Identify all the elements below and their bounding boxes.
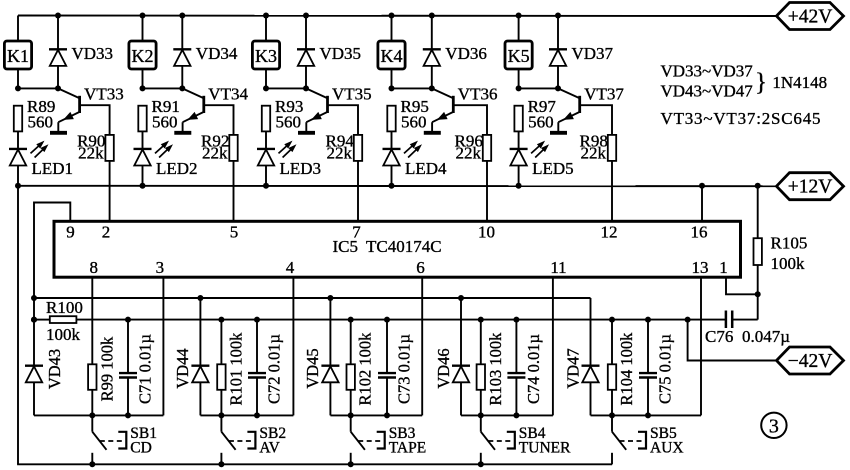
svg-text:100k: 100k [771, 254, 806, 273]
resistor R96 22k [455, 131, 492, 162]
svg-text:K2: K2 [132, 46, 154, 66]
switch SB2 AV [218, 415, 286, 467]
svg-text:1: 1 [719, 258, 728, 277]
wire -42V line [31, 317, 726, 323]
power +12V [777, 173, 844, 200]
pin 16 label [691, 223, 708, 242]
svg-text:VD34: VD34 [196, 44, 238, 63]
transistor VT37 [558, 84, 624, 135]
svg-text:12: 12 [601, 223, 618, 242]
wire branch to -42V [688, 320, 777, 361]
svg-text:LED5: LED5 [532, 159, 574, 178]
transistor VT34 [182, 84, 248, 135]
LED LED2 [134, 131, 198, 188]
transistor VT35 [306, 84, 372, 135]
note VD43~VD47 [661, 82, 754, 101]
wire R94 to IC pin [357, 161, 359, 221]
svg-text:C71 0.01µ: C71 0.01µ [136, 334, 155, 404]
switch SB1 CD [89, 415, 157, 467]
resistor R93 560 [262, 97, 304, 132]
svg-text:8: 8 [90, 258, 99, 277]
pin 9 label [66, 223, 75, 242]
wire R92 to IC pin [233, 161, 235, 221]
svg-text:C73 0.01µ: C73 0.01µ [395, 334, 414, 404]
svg-text:3: 3 [156, 258, 165, 277]
svg-text:VT37: VT37 [584, 84, 624, 103]
svg-text:LED3: LED3 [280, 159, 322, 178]
svg-text:1N4148: 1N4148 [772, 73, 827, 92]
svg-text:22k: 22k [202, 144, 228, 163]
wire IC pin 4 down [292, 277, 294, 415]
svg-text:R103 100k: R103 100k [486, 332, 505, 406]
resistor R100 100k [34, 298, 83, 344]
svg-text:K5: K5 [508, 46, 530, 66]
svg-text:VD47: VD47 [563, 348, 582, 388]
svg-text:560: 560 [152, 113, 178, 132]
pin 3 label [156, 258, 165, 277]
pin 2 label [102, 223, 111, 242]
svg-text:VD33~VD37: VD33~VD37 [661, 62, 754, 81]
pin 1 label [719, 258, 728, 277]
pin 10 label [478, 223, 495, 242]
svg-text:VD33: VD33 [72, 44, 114, 63]
switch SB4 TUNER [478, 415, 571, 467]
resistor R91 560 [138, 97, 180, 132]
wire R98 to IC pin [611, 161, 613, 221]
node K3/VD35/VT35 collector [263, 85, 309, 91]
LED LED4 [383, 131, 448, 188]
resistor R89 560 [14, 97, 56, 132]
svg-text:3: 3 [769, 415, 779, 437]
node K4/VD36/VT36 collector [389, 85, 435, 91]
transistor VT33 [58, 84, 124, 135]
svg-text:13: 13 [692, 258, 709, 277]
svg-text:22k: 22k [456, 144, 482, 163]
capacitor C76 0.047µ [705, 294, 790, 346]
resistor R99 100k [88, 277, 116, 415]
pin 12 label [601, 223, 618, 242]
wire +12V rail [18, 185, 777, 187]
svg-text:22k: 22k [581, 144, 607, 163]
switch SB3 TAPE [348, 415, 427, 467]
svg-text:10: 10 [478, 223, 495, 242]
pin 13 label [692, 258, 709, 277]
LED LED1 [9, 131, 73, 188]
relay K4 [378, 13, 405, 89]
wire pin 1 to R105 node [726, 277, 761, 297]
svg-text:TC40174C: TC40174C [366, 237, 442, 256]
transistor VT36 [432, 84, 498, 135]
IC5 label [333, 237, 442, 256]
resistor R97 560 [514, 97, 556, 132]
wire IC pin 11 down [552, 277, 554, 415]
figure number 3 [761, 413, 786, 438]
wire +42V top rail [18, 15, 777, 18]
relay K2 [129, 13, 156, 89]
svg-text:AV: AV [259, 439, 280, 456]
note brace [755, 69, 767, 96]
pin 4 label [286, 258, 295, 277]
diode VD46 [434, 298, 470, 415]
diode VD47 [563, 298, 599, 415]
svg-text:TAPE: TAPE [389, 439, 427, 456]
node K2/VD34/VT34 collector [140, 85, 186, 91]
svg-text:22k: 22k [78, 144, 104, 163]
diode VD35 [297, 13, 361, 89]
svg-text:CD: CD [130, 439, 152, 456]
capacitor C75 0.01µ [639, 320, 675, 416]
diode VD45 [303, 298, 339, 415]
pin 8 label [90, 258, 99, 277]
wire pin 9 hook to VD43 node [34, 203, 70, 299]
note VD33~VD37 [661, 62, 754, 81]
svg-text:VD43~VD47: VD43~VD47 [661, 82, 754, 101]
wire IC pin 13 down [700, 277, 702, 415]
pin 5 label [230, 223, 239, 242]
svg-text:7: 7 [352, 223, 361, 242]
resistor R92 22k [201, 131, 238, 162]
svg-text:VD43: VD43 [45, 349, 64, 389]
svg-text:K4: K4 [381, 46, 403, 66]
svg-text:16: 16 [691, 223, 708, 242]
node K1/VD33/VT33 collector [15, 85, 61, 91]
relay K5 [505, 13, 532, 89]
diode VD34 [173, 13, 238, 89]
wire bus 2 [200, 412, 293, 418]
note 1N4148 [772, 73, 827, 92]
capacitor C72 0.01µ [248, 320, 284, 416]
resistor R95 560 [387, 97, 429, 132]
svg-text:−42V: −42V [788, 351, 833, 372]
svg-text:C75 0.01µ: C75 0.01µ [656, 334, 675, 404]
LED LED5 [510, 131, 574, 188]
svg-text:TUNER: TUNER [519, 439, 571, 456]
ground (emitter VT36) [424, 131, 441, 135]
svg-text:R100: R100 [46, 298, 83, 317]
svg-text:R105: R105 [771, 234, 808, 253]
pin 7 label [352, 223, 361, 242]
svg-text:VT33: VT33 [84, 84, 124, 103]
svg-text:4: 4 [286, 258, 295, 277]
diode VD33 [49, 13, 113, 89]
note VT33~VT37:2SC645 [661, 109, 822, 128]
svg-text:VT33~VT37:2SC645: VT33~VT37:2SC645 [661, 109, 822, 128]
pin 6 label [416, 258, 425, 277]
svg-text:9: 9 [66, 223, 75, 242]
power -42V [777, 347, 844, 374]
svg-text:+42V: +42V [788, 7, 833, 28]
capacitor C71 0.01µ [119, 320, 155, 416]
svg-text:560: 560 [276, 113, 302, 132]
resistor R94 22k [326, 131, 363, 162]
svg-text:2: 2 [102, 223, 111, 242]
svg-text:VD37: VD37 [572, 44, 614, 63]
wire R90 to IC pin [109, 161, 111, 221]
resistor R101 100k [217, 320, 245, 416]
svg-text:VT35: VT35 [332, 84, 372, 103]
capacitor C74 0.01µ [507, 320, 543, 416]
wire pin-9 node to VD44..VD47 tops [31, 295, 591, 301]
resistor R104 100k [608, 320, 636, 416]
IC IC5 TC40174C [54, 221, 741, 277]
resistor R98 22k [580, 131, 617, 162]
ground (emitter VT37) [550, 131, 567, 135]
svg-text:LED4: LED4 [405, 159, 447, 178]
svg-text:K1: K1 [7, 46, 29, 66]
wire pin 16 to +12V rail [699, 183, 705, 222]
LED LED3 [257, 131, 321, 188]
node K5/VD37/VT37 collector [516, 85, 561, 91]
relay K1 [4, 16, 31, 89]
wire IC pin 3 down [162, 277, 164, 415]
svg-text:K3: K3 [255, 46, 277, 66]
ground (emitter VT34) [174, 131, 191, 135]
svg-text:VD45: VD45 [303, 348, 322, 388]
ground (emitter VT35) [298, 131, 315, 135]
svg-text:0.047µ: 0.047µ [742, 327, 790, 346]
svg-text:VD44: VD44 [173, 348, 192, 388]
wire bus 5 [591, 412, 702, 418]
diode VD43 [25, 298, 64, 415]
svg-text:VT34: VT34 [208, 84, 248, 103]
svg-text:+12V: +12V [788, 177, 833, 198]
svg-text:560: 560 [401, 113, 427, 132]
svg-text:VD35: VD35 [320, 44, 362, 63]
svg-text:}: } [755, 69, 767, 96]
svg-text:5: 5 [230, 223, 239, 242]
svg-text:VD46: VD46 [434, 348, 453, 388]
svg-text:R104 100k: R104 100k [617, 332, 636, 406]
svg-text:560: 560 [528, 113, 554, 132]
power +42V [777, 3, 844, 30]
switch SB5 AUX [612, 415, 684, 464]
svg-text:C76: C76 [705, 327, 733, 346]
svg-text:R99 100k: R99 100k [97, 336, 116, 401]
svg-text:6: 6 [416, 258, 425, 277]
svg-text:100k: 100k [46, 325, 81, 344]
pin 11 label [550, 258, 566, 277]
wire IC pin 6 down [421, 277, 423, 415]
resistor R103 100k [477, 320, 505, 416]
svg-text:LED2: LED2 [156, 159, 198, 178]
diode VD36 [423, 13, 487, 89]
wire R96 to IC pin [486, 161, 488, 221]
ground (emitter VT33) [50, 131, 67, 135]
svg-text:C72 0.01µ: C72 0.01µ [265, 334, 284, 404]
svg-text:R102 100k: R102 100k [356, 332, 375, 406]
svg-text:LED1: LED1 [32, 159, 74, 178]
wire bottom rail [17, 463, 612, 465]
capacitor C73 0.01µ [378, 320, 414, 416]
diode VD37 [549, 13, 614, 89]
wire bus 3 [330, 412, 422, 418]
svg-text:22k: 22k [327, 144, 353, 163]
wire bus 1 [34, 412, 163, 418]
svg-text:11: 11 [550, 258, 566, 277]
svg-text:R101 100k: R101 100k [226, 332, 245, 406]
svg-text:VD36: VD36 [445, 44, 487, 63]
wire bus 4 [461, 412, 553, 418]
svg-text:AUX: AUX [650, 439, 684, 456]
diode VD44 [173, 298, 209, 415]
svg-text:560: 560 [28, 113, 54, 132]
relay K3 [252, 13, 279, 89]
resistor R90 22k [77, 131, 114, 162]
svg-text:C74 0.01µ: C74 0.01µ [524, 334, 543, 404]
svg-text:VT36: VT36 [458, 84, 498, 103]
wire left rail [17, 186, 19, 465]
resistor R105 100k [754, 183, 808, 294]
resistor R102 100k [347, 320, 375, 416]
